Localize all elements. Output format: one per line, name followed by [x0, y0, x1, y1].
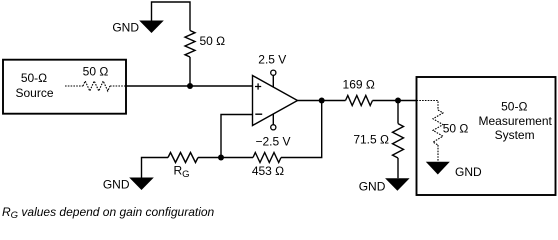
- svg-text:2.5 V: 2.5 V: [258, 53, 286, 67]
- resistor 453 ohm (feedback): [253, 153, 281, 163]
- resistor 50 ohm measurement input impedance (dashed): [433, 110, 443, 145]
- svg-text:Source: Source: [15, 86, 53, 100]
- svg-text:GND: GND: [112, 20, 139, 34]
- node: output junction: [319, 98, 325, 104]
- svg-text:System: System: [495, 128, 535, 142]
- resistor 169 ohm: [346, 96, 373, 106]
- pin: negative supply stub: [272, 114, 274, 125]
- svg-text:50 Ω: 50 Ω: [83, 64, 109, 78]
- wire: load node down to 71.5 ohm: [397, 101, 399, 124]
- svg-text:RG values depend on gain confi: RG values depend on gain configuration: [2, 205, 215, 221]
- pin: positive supply stub: [272, 75, 274, 87]
- resistor 71.5 ohm (divider to ground): [393, 124, 404, 158]
- ground (measurement system internal): [426, 162, 450, 175]
- wire: dashed internal measurement input: [417, 101, 439, 111]
- svg-text:50 Ω: 50 Ω: [200, 34, 226, 48]
- svg-text:GND: GND: [103, 178, 130, 192]
- node: load junction: [395, 98, 401, 104]
- resistor 50 ohm source internal impedance (dashed): [65, 85, 83, 87]
- svg-text:50-Ω: 50-Ω: [21, 71, 47, 85]
- node: input junction: [187, 83, 193, 89]
- svg-text:453 Ω: 453 Ω: [252, 164, 284, 178]
- source box: 50-ohm Source: [3, 60, 126, 114]
- wire: feedback from output node down: [281, 101, 322, 158]
- svg-text:GND: GND: [359, 179, 386, 193]
- svg-text:−2.5 V: −2.5 V: [255, 134, 290, 148]
- measurement system box: [417, 77, 556, 195]
- node: gain-set junction: [218, 155, 224, 161]
- wire: RG to ground: [142, 158, 169, 178]
- wire: top ground run from 50-ohm pull resistor to GND: [152, 2, 191, 31]
- svg-text:50-Ω: 50-Ω: [501, 100, 527, 114]
- wire: source to op-amp noninverting input: [126, 85, 253, 87]
- ground (RG): [129, 178, 154, 191]
- resistor R 50 ohm (termination to ground): [185, 31, 195, 58]
- ground (top left, for 50 ohm termination): [139, 21, 164, 34]
- svg-text:GND: GND: [455, 165, 482, 179]
- wire: feedback to inverting input: [221, 157, 253, 159]
- svg-text:71.5 Ω: 71.5 Ω: [353, 133, 389, 147]
- svg-text:RG: RG: [174, 164, 190, 180]
- svg-text:Measurement: Measurement: [479, 114, 553, 128]
- resistor RG (gain set): [198, 157, 221, 159]
- wire: op-amp output: [298, 100, 346, 102]
- svg-text:50 Ω: 50 Ω: [443, 122, 469, 136]
- wire: 169 ohm to measurement system: [373, 100, 418, 102]
- ground (71.5 ohm): [385, 178, 410, 191]
- op-amp U1: [253, 76, 298, 126]
- svg-text:169 Ω: 169 Ω: [343, 77, 375, 91]
